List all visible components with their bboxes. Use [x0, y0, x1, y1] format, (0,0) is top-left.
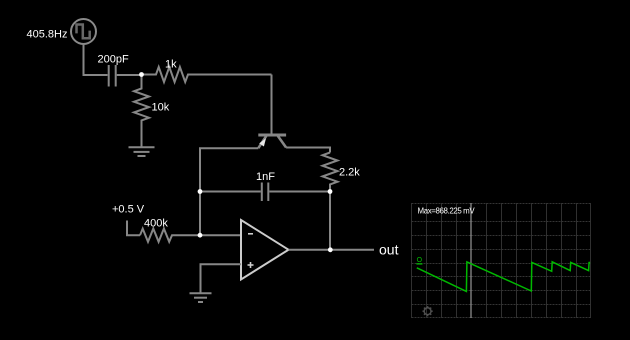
svg-text:+0.5 V: +0.5 V [112, 204, 145, 216]
svg-text:200pF: 200pF [98, 54, 129, 66]
op-amp U1 [241, 220, 289, 280]
svg-text:O: O [417, 257, 423, 264]
wire node E to op-amp minus input [200, 234, 241, 236]
svg-text:2.2k: 2.2k [339, 167, 360, 179]
oscilloscope channel label O [416, 257, 422, 264]
capacitor C2 1nF [262, 183, 269, 202]
wire source to capacitor [84, 44, 108, 75]
square-wave source V1 [71, 19, 96, 44]
wire 1k to transistor base [271, 75, 273, 134]
oscilloscope sweep cursor [470, 203, 472, 318]
svg-text:out: out [379, 242, 399, 258]
resistor R2 10k [134, 75, 149, 147]
wire collector to 2.2k [286, 148, 330, 153]
wire node D down to out node [329, 192, 331, 250]
transistor Q1 (PNP) [258, 135, 286, 148]
square-wave glyph inside V1 [77, 25, 90, 39]
wire op-amp output to out [289, 249, 375, 251]
voltage rail +0.5 V [127, 221, 140, 236]
resistor R1 1k [142, 67, 272, 82]
ground G2 [190, 293, 212, 302]
resistor R4 400k [140, 229, 200, 242]
node C junction dot [198, 189, 203, 194]
op-amp plus sign [248, 262, 254, 268]
wire capacitor C2 to node D [269, 191, 330, 193]
transistor Q1 emitter arrow [259, 138, 266, 146]
wire op-amp plus input to ground [201, 264, 242, 292]
ground G1 [129, 147, 155, 156]
wire node C down to op-amp inverting input [199, 192, 201, 236]
wire emitter to node C [200, 148, 258, 191]
oscilloscope grid horizontal lines [412, 204, 591, 318]
oscilloscope settings gear icon [423, 306, 433, 316]
wire node C to capacitor C2 [200, 191, 261, 193]
op-amp minus sign [248, 233, 253, 235]
svg-text:400k: 400k [144, 218, 168, 230]
svg-text:1k: 1k [165, 59, 177, 71]
svg-text:1nF: 1nF [256, 171, 275, 183]
oscilloscope grid vertical lines [412, 203, 591, 318]
resistor R3 2.2k [323, 153, 338, 192]
node D junction dot [328, 189, 333, 194]
out node junction dot [328, 247, 333, 252]
wire capacitor to node B [117, 74, 142, 76]
svg-text:10k: 10k [152, 102, 170, 114]
svg-text:405.8Hz: 405.8Hz [27, 29, 68, 41]
node E junction dot [198, 233, 203, 238]
oscilloscope trace (sawtooth) [417, 262, 590, 292]
node B junction dot [139, 72, 144, 77]
capacitor C1 200pF [109, 65, 116, 87]
svg-text:Max=868.225 mV: Max=868.225 mV [418, 207, 476, 216]
